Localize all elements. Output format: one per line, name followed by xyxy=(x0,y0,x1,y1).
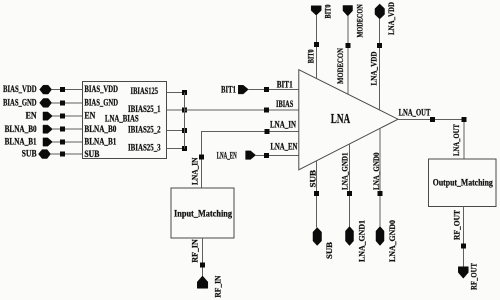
wire BIAS_GND xyxy=(52,102,83,104)
pad EN xyxy=(43,112,52,120)
svg-text:LNA_OUT: LNA_OUT xyxy=(452,123,461,156)
junction LNA_OUT b xyxy=(461,117,466,122)
pad BIT0 xyxy=(311,6,321,15)
svg-text:MODECON: MODECON xyxy=(356,4,365,37)
svg-text:BIAS_VDD: BIAS_VDD xyxy=(84,84,118,94)
pad BIAS_GND xyxy=(40,99,52,108)
svg-text:IBIAS25_2: IBIAS25_2 xyxy=(128,124,161,134)
junction IBIAS xyxy=(264,108,269,113)
wire bias bus vertical xyxy=(184,93,186,149)
svg-text:BIT1: BIT1 xyxy=(277,79,293,89)
svg-text:IBIAS125: IBIAS125 xyxy=(131,86,159,96)
pad RF_OUT xyxy=(458,267,468,279)
svg-text:LNA_IN: LNA_IN xyxy=(270,119,296,129)
svg-text:SUB: SUB xyxy=(325,241,334,259)
wire BIT1 xyxy=(248,88,298,90)
svg-text:LNA_EN: LNA_EN xyxy=(217,151,237,161)
junction IBIAS25_2 xyxy=(182,128,187,133)
junction LNA_IN xyxy=(265,129,270,134)
svg-text:LNA_VDD: LNA_VDD xyxy=(387,2,396,35)
block LNA_BIAS xyxy=(82,81,166,158)
wire IBIAS25_2 xyxy=(166,130,184,132)
svg-text:MODECON: MODECON xyxy=(336,48,345,84)
wire SUB xyxy=(51,153,83,155)
pad LNA_GND0 xyxy=(376,227,384,246)
wire EN xyxy=(52,115,82,117)
pad BLNA_B1 xyxy=(43,138,52,146)
block Output_Matching xyxy=(429,159,497,207)
op-amp LNA triangle xyxy=(299,70,398,170)
svg-text:EN: EN xyxy=(26,111,37,121)
wire LNA_EN xyxy=(256,154,299,156)
svg-text:BIAS_GND: BIAS_GND xyxy=(3,98,37,108)
junction RF_IN xyxy=(200,263,205,268)
wire LNA_IN xyxy=(201,132,298,189)
junction BLNA_B1 xyxy=(60,139,65,144)
svg-text:BIT0: BIT0 xyxy=(324,5,333,19)
svg-text:IBIAS: IBIAS xyxy=(276,99,293,109)
junction BIT1 xyxy=(264,87,269,92)
svg-text:LNA_BIAS: LNA_BIAS xyxy=(105,114,139,124)
junction LNA_OUT a xyxy=(430,117,435,122)
svg-text:BIAS_GND: BIAS_GND xyxy=(84,98,118,108)
svg-text:IBIAS25_3: IBIAS25_3 xyxy=(128,142,161,152)
junction LNA_IN vertical xyxy=(199,155,204,160)
svg-text:BIT0: BIT0 xyxy=(306,49,315,63)
wire SUB bottom xyxy=(316,161,318,228)
svg-text:LNA_OUT: LNA_OUT xyxy=(399,108,431,118)
pad LNA_EN xyxy=(246,151,256,160)
wire BIAS_VDD xyxy=(52,89,83,91)
pad BLNA_B0 xyxy=(43,125,52,133)
junction MODECON xyxy=(345,43,350,48)
wire IBIAS25_1 xyxy=(166,109,184,111)
svg-text:LNA_GND0: LNA_GND0 xyxy=(372,153,381,191)
pad SUB (bottom) xyxy=(313,228,322,246)
block Input_Matching xyxy=(171,188,234,238)
wire LNA_GND0 xyxy=(379,129,381,227)
pad RF_IN xyxy=(197,276,208,288)
svg-text:BLNA_B0: BLNA_B0 xyxy=(5,124,37,134)
wire BIT0 xyxy=(315,15,317,78)
svg-text:SUB: SUB xyxy=(309,169,318,187)
pad SUB (left) xyxy=(39,150,51,159)
wire MODECON xyxy=(347,16,349,94)
junction SUB xyxy=(60,152,65,157)
svg-text:RF_OUT: RF_OUT xyxy=(452,209,461,240)
wire LNA_GND1 xyxy=(348,144,350,226)
wire LNA_OUT xyxy=(398,119,464,159)
junction EN xyxy=(60,114,65,119)
svg-text:EN: EN xyxy=(84,111,95,121)
pad BIAS_VDD xyxy=(40,85,52,94)
wire IBIAS125 xyxy=(166,92,184,94)
junction IBIAS25_3 xyxy=(182,146,187,151)
svg-text:LNA_GND0: LNA_GND0 xyxy=(388,220,397,262)
wire RF_OUT xyxy=(462,207,464,267)
svg-text:LNA_GND1: LNA_GND1 xyxy=(358,220,367,262)
junction LNA_GND0 xyxy=(378,191,383,196)
junction IBIAS25_1 xyxy=(182,108,187,113)
pad LNA_GND1 xyxy=(346,227,354,246)
svg-text:Input_Matching: Input_Matching xyxy=(174,209,232,219)
junction RF_OUT xyxy=(461,244,466,249)
svg-text:SUB: SUB xyxy=(22,149,37,159)
svg-text:RF_IN: RF_IN xyxy=(214,275,223,297)
svg-text:LNA_EN: LNA_EN xyxy=(270,142,297,152)
junction BIAS_GND xyxy=(60,100,65,105)
junction IBIAS125 xyxy=(182,90,187,95)
svg-text:BLNA_B0: BLNA_B0 xyxy=(84,124,116,134)
junction BLNA_B0 xyxy=(60,127,65,132)
svg-text:BIT1: BIT1 xyxy=(221,84,236,94)
pad BIT1 xyxy=(238,85,248,94)
junction BIAS_VDD xyxy=(60,87,65,92)
wire LNA_VDD xyxy=(379,19,381,110)
pad MODECON xyxy=(343,6,353,17)
svg-text:LNA_IN: LNA_IN xyxy=(191,157,200,185)
pad LNA_VDD xyxy=(375,4,385,19)
svg-text:IBIAS25_1: IBIAS25_1 xyxy=(128,104,161,114)
wire IBIAS to LNA xyxy=(185,109,299,111)
svg-text:RF_IN: RF_IN xyxy=(190,239,199,263)
svg-text:BIAS_VDD: BIAS_VDD xyxy=(3,84,37,94)
wire RF_IN xyxy=(202,238,204,276)
svg-text:LNA_VDD: LNA_VDD xyxy=(369,51,378,85)
svg-text:Output_Matching: Output_Matching xyxy=(433,178,493,188)
svg-text:RF_OUT: RF_OUT xyxy=(470,262,479,290)
svg-text:BLNA_B1: BLNA_B1 xyxy=(5,137,37,147)
wire BLNA_B1 xyxy=(52,141,82,143)
wire IBIAS25_3 xyxy=(166,148,184,150)
svg-text:SUB: SUB xyxy=(84,149,99,159)
junction LNA_EN xyxy=(264,153,269,158)
svg-text:LNA: LNA xyxy=(331,111,351,126)
svg-text:BLNA_B1: BLNA_B1 xyxy=(84,137,116,147)
wire BLNA_B0 xyxy=(52,128,82,130)
svg-text:LNA_GND1: LNA_GND1 xyxy=(340,153,349,191)
junction LNA_VDD xyxy=(377,43,382,48)
junction LNA_GND1 xyxy=(347,191,352,196)
junction SUB bottom xyxy=(314,191,319,196)
junction BIT0 xyxy=(314,42,319,47)
